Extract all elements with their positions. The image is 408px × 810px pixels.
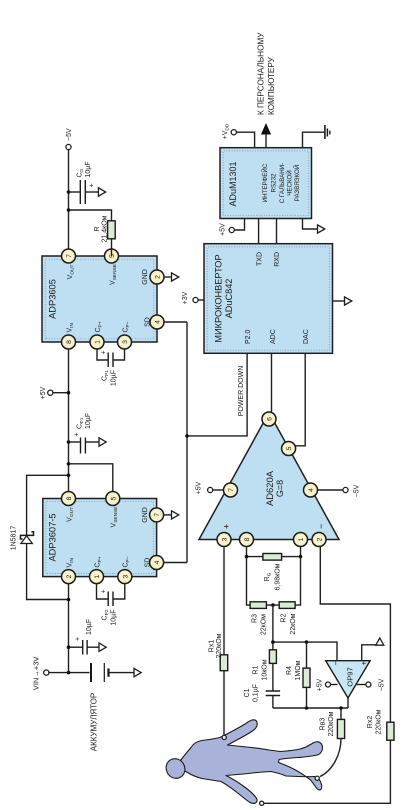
svg-text:Rх1: Rх1 bbox=[209, 640, 216, 653]
svg-text:5: 5 bbox=[110, 496, 117, 500]
svg-text:4: 4 bbox=[155, 320, 162, 324]
svg-text:5: 5 bbox=[286, 446, 293, 450]
svg-text:2: 2 bbox=[66, 574, 73, 578]
svg-text:10кОм: 10кОм bbox=[262, 659, 269, 680]
svg-text:+5V: +5V bbox=[220, 223, 227, 236]
svg-text:220кОм: 220кОм bbox=[216, 633, 223, 658]
svg-text:ADuM1301: ADuM1301 bbox=[228, 161, 238, 206]
svg-text:КОМПЬЮТЕРУ: КОМПЬЮТЕРУ bbox=[267, 56, 276, 115]
svg-text:ИНТЕРФЕЙС: ИНТЕРФЕЙС bbox=[261, 163, 269, 202]
svg-text:ADC: ADC bbox=[270, 329, 277, 344]
svg-text:+5V: +5V bbox=[40, 386, 47, 399]
svg-text:1N5817: 1N5817 bbox=[11, 526, 18, 551]
svg-text:1МОм: 1МОм bbox=[295, 660, 302, 680]
svg-text:ADP3607-5: ADP3607-5 bbox=[48, 513, 58, 561]
svg-text:Rв3: Rв3 bbox=[320, 718, 327, 731]
svg-text:+3V: +3V bbox=[182, 291, 189, 304]
svg-text:21,4кОм: 21,4кОм bbox=[102, 215, 109, 242]
svg-text:DAC: DAC bbox=[303, 329, 310, 344]
svg-text:+5V: +5V bbox=[196, 481, 203, 494]
svg-text:+5V: +5V bbox=[317, 678, 324, 691]
svg-text:10µF: 10µF bbox=[85, 413, 92, 429]
svg-text:7: 7 bbox=[66, 254, 73, 258]
svg-text:ADP3605: ADP3605 bbox=[48, 279, 58, 319]
svg-text:С ГАЛЬВАНИ-: С ГАЛЬВАНИ- bbox=[279, 163, 286, 204]
svg-text:АККУМУЛЯТОР: АККУМУЛЯТОР bbox=[90, 693, 99, 751]
svg-text:−5V: −5V bbox=[379, 678, 386, 691]
svg-text:0,1µF: 0,1µF bbox=[253, 684, 260, 702]
svg-text:3: 3 bbox=[222, 537, 229, 541]
svg-text:ЧЕСКОЙ: ЧЕСКОЙ bbox=[286, 170, 294, 196]
svg-text:VIN→+3V: VIN→+3V bbox=[32, 657, 41, 691]
svg-text:AD620A: AD620A bbox=[264, 470, 275, 506]
svg-text:+: + bbox=[101, 589, 108, 593]
svg-text:+: + bbox=[75, 637, 82, 641]
svg-text:+: + bbox=[74, 432, 81, 436]
svg-text:8: 8 bbox=[66, 340, 73, 344]
svg-text:8: 8 bbox=[244, 537, 251, 541]
svg-text:7: 7 bbox=[154, 513, 161, 517]
svg-text:GND: GND bbox=[142, 269, 149, 285]
svg-text:220кОм: 220кОм bbox=[328, 711, 335, 736]
svg-text:R: R bbox=[94, 226, 101, 231]
svg-text:1: 1 bbox=[94, 574, 101, 578]
svg-text:+: + bbox=[101, 350, 108, 354]
svg-text:220кОм: 220кОм bbox=[376, 709, 383, 734]
svg-text:POWER DOWN: POWER DOWN bbox=[238, 366, 245, 417]
svg-text:ADuC842: ADuC842 bbox=[224, 279, 234, 319]
svg-text:C1: C1 bbox=[244, 688, 251, 697]
svg-text:+: + bbox=[360, 661, 369, 666]
svg-text:TXD: TXD bbox=[256, 252, 263, 266]
svg-text:+: + bbox=[89, 183, 96, 187]
svg-text:−5V: −5V bbox=[354, 484, 361, 497]
svg-text:G=8: G=8 bbox=[275, 480, 285, 497]
svg-text:−: − bbox=[332, 661, 341, 666]
svg-text:RXD: RXD bbox=[274, 252, 281, 267]
svg-text:7: 7 bbox=[228, 488, 235, 492]
svg-text:3: 3 bbox=[122, 574, 129, 578]
svg-text:22кОм: 22кОм bbox=[290, 613, 297, 634]
svg-text:R1: R1 bbox=[253, 665, 260, 674]
svg-text:2: 2 bbox=[155, 275, 162, 279]
svg-text:P2.0: P2.0 bbox=[245, 329, 252, 344]
svg-text:6: 6 bbox=[267, 417, 274, 421]
svg-text:R4: R4 bbox=[286, 666, 293, 675]
svg-text:3: 3 bbox=[122, 340, 129, 344]
svg-text:R2: R2 bbox=[281, 613, 288, 622]
svg-text:8: 8 bbox=[66, 496, 73, 500]
svg-text:Rх2: Rх2 bbox=[367, 716, 374, 729]
svg-text:10µF: 10µF bbox=[86, 619, 93, 635]
svg-text:10µF: 10µF bbox=[85, 161, 92, 177]
svg-text:22кОм: 22кОм bbox=[261, 614, 268, 635]
svg-text:10µF: 10µF bbox=[111, 610, 118, 626]
svg-text:5: 5 bbox=[109, 254, 116, 258]
svg-text:4: 4 bbox=[154, 560, 161, 564]
svg-text:10µF: 10µF bbox=[111, 370, 118, 386]
svg-text:4: 4 bbox=[308, 488, 315, 492]
svg-text:РАЗВЯЗКОЙ: РАЗВЯЗКОЙ bbox=[293, 165, 301, 201]
svg-text:R3: R3 bbox=[252, 614, 259, 623]
svg-text:−: − bbox=[316, 524, 326, 529]
svg-text:1: 1 bbox=[298, 537, 305, 541]
svg-text:К ПЕРСОНАЛЬНОМУ: К ПЕРСОНАЛЬНОМУ bbox=[257, 32, 266, 115]
svg-text:2: 2 bbox=[317, 537, 324, 541]
svg-text:+: + bbox=[222, 524, 232, 529]
svg-text:1: 1 bbox=[95, 340, 102, 344]
svg-text:МИКРОКОНВЕРТОР: МИКРОКОНВЕРТОР bbox=[214, 254, 224, 342]
svg-text:6,98кОм: 6,98кОм bbox=[275, 563, 282, 590]
svg-text:RS232: RS232 bbox=[271, 173, 278, 192]
svg-text:OP97: OP97 bbox=[346, 667, 355, 686]
svg-text:GND: GND bbox=[142, 507, 149, 523]
svg-text:−5V: −5V bbox=[66, 128, 73, 141]
